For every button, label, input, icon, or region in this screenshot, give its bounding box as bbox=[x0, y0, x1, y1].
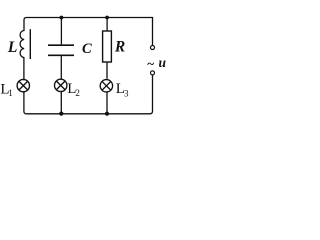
wire lamp L3 to bottom rail bbox=[106, 92, 108, 114]
inductor L coil bbox=[20, 31, 24, 58]
svg-text:R: R bbox=[114, 39, 125, 56]
lamp L2 bbox=[55, 79, 67, 91]
wire capacitor stem top bbox=[60, 18, 62, 45]
capacitor C plates bbox=[48, 45, 74, 55]
node junction dot top resistor branch bbox=[105, 16, 109, 20]
wire resistor stem top bbox=[106, 18, 108, 32]
svg-text:1: 1 bbox=[8, 88, 13, 98]
terminal top bbox=[151, 46, 155, 50]
resistor R box bbox=[103, 31, 112, 62]
wire lamp L2 to bottom rail bbox=[60, 91, 62, 113]
lamp L1 bbox=[17, 79, 29, 91]
wire bottom rail bbox=[24, 75, 153, 113]
node bottom junction resistor branch bbox=[105, 112, 109, 116]
inductor core bar bbox=[29, 29, 31, 59]
svg-text:3: 3 bbox=[124, 88, 129, 98]
svg-text:u: u bbox=[159, 55, 167, 70]
wire left branch coil to lamp L1 bbox=[23, 58, 25, 80]
svg-text:L: L bbox=[7, 39, 17, 56]
wire right vertical to top terminal bbox=[152, 18, 154, 45]
terminal bottom bbox=[151, 71, 155, 75]
node bottom junction capacitor branch bbox=[59, 112, 63, 116]
wire top rail bbox=[24, 18, 153, 31]
svg-text:~: ~ bbox=[147, 56, 154, 71]
svg-text:C: C bbox=[82, 41, 92, 57]
svg-text:2: 2 bbox=[75, 88, 80, 98]
lamp L3 bbox=[100, 80, 112, 92]
node junction dot top capacitor branch bbox=[60, 16, 64, 20]
wire resistor stem bottom bbox=[106, 62, 108, 79]
wire capacitor stem bottom bbox=[60, 55, 62, 79]
